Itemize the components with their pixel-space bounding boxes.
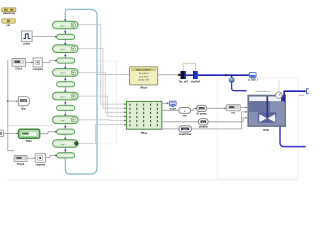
wire: blue vertical line through pipe column bbox=[64, 21, 66, 158]
gauge circle bbox=[276, 92, 282, 98]
cropped block at left edge bbox=[0, 130, 4, 137]
wire: edge block to TSim bbox=[4, 132, 19, 134]
pipe P2 (small) bbox=[57, 34, 75, 39]
svg-text:set: set bbox=[6, 24, 10, 27]
sensor block T2 bbox=[191, 71, 201, 83]
faint area box right section bbox=[217, 78, 298, 179]
wire: compare to pipe P4 bbox=[42, 61, 55, 63]
wire: TBus to desalt flow bbox=[162, 128, 179, 130]
svg-text:Pipe 3: Pipe 3 bbox=[60, 73, 65, 75]
wire: thick blue pipe sensors to condenser icon bbox=[186, 74, 249, 76]
VAust parameter block bbox=[130, 67, 158, 90]
wire: VAust to sensor T1 bbox=[158, 74, 181, 76]
svg-text:pulse: pulse bbox=[24, 43, 31, 46]
faint area box pipe section bbox=[97, 61, 117, 144]
wire: tvz to tank bbox=[240, 107, 247, 109]
desalt flow pill block bbox=[179, 126, 192, 136]
wire: M_pump to tvz bbox=[207, 107, 227, 109]
wire: branch from ball down to tank top port bbox=[232, 82, 246, 90]
wire: tap pipe4 to TBus input4 bbox=[78, 96, 125, 116]
pipe P7 (big) bbox=[53, 92, 78, 100]
svg-text:Clock: Clock bbox=[15, 67, 22, 70]
wire: vhx to M_pump bbox=[191, 109, 197, 111]
M_pump pill block bbox=[197, 105, 207, 115]
pipe P11 (big, dark dot) bbox=[53, 140, 79, 148]
pipe P4 (small) bbox=[57, 58, 75, 63]
setpoint square block bbox=[33, 154, 45, 167]
tank CSTR bbox=[247, 95, 286, 133]
svg-text:u_TBD_i: u_TBD_i bbox=[248, 78, 258, 81]
wire: blue recirculation loop around pipe column bbox=[65, 9, 97, 174]
wire: loop tap to VAust bbox=[97, 74, 130, 76]
wire: sensor bypass loop bbox=[183, 63, 195, 71]
wire: pulse generator to pipe P2 bbox=[32, 36, 55, 38]
wire: aeration to tank bbox=[208, 118, 247, 122]
junction ball icon bbox=[231, 75, 233, 77]
pipe P8 (small) bbox=[57, 105, 75, 110]
time display block 2 bbox=[14, 156, 27, 166]
wire: gauge stem bbox=[278, 80, 280, 92]
wire: mid horizontal line bbox=[8, 125, 52, 127]
svg-text:800 g COD/m³: 800 g COD/m³ bbox=[136, 69, 151, 72]
svg-text:setpoint: setpoint bbox=[35, 163, 45, 166]
faint bottom boundary line bbox=[6, 179, 298, 181]
svg-text:Time2: Time2 bbox=[17, 163, 25, 166]
sensor block T1 bbox=[179, 71, 189, 83]
svg-text:Pipe 2: Pipe 2 bbox=[60, 49, 65, 51]
wire: tap pipe3 to TBus input3 bbox=[78, 72, 125, 112]
svg-text:Umax=5000 m³: Umax=5000 m³ bbox=[255, 90, 270, 93]
wire: setpoint to pipe P12 bbox=[45, 155, 55, 157]
wire: TBus to aeration bbox=[162, 121, 199, 123]
wire: TBus to vhx bbox=[162, 109, 179, 111]
tvz display block bbox=[226, 105, 240, 115]
wire: tank top outlet pipe to right edge bbox=[283, 91, 304, 101]
svg-text:Pipe 6: Pipe 6 bbox=[60, 144, 65, 146]
node: junction dot bbox=[7, 100, 9, 102]
pipe P3 (big) bbox=[53, 45, 78, 53]
TBus input arrowheads bbox=[124, 103, 126, 126]
svg-text:10 g P/m³: 10 g P/m³ bbox=[139, 75, 149, 78]
svg-text:Qsp: Qsp bbox=[21, 107, 26, 110]
pipe P10 (small) bbox=[57, 129, 75, 134]
svg-text:u=5.0: u=5.0 bbox=[299, 95, 305, 97]
wire: tap pipe2 to TBus input2 bbox=[78, 48, 125, 108]
TSim green display block bbox=[19, 129, 40, 143]
svg-text:Pipe 5: Pipe 5 bbox=[60, 120, 65, 122]
svg-text:TSim: TSim bbox=[26, 140, 33, 143]
svg-text:30 g N/m³: 30 g N/m³ bbox=[139, 72, 149, 75]
workspace block set bbox=[2, 19, 15, 27]
svg-text:waterlevel: waterlevel bbox=[3, 12, 15, 15]
svg-text:TBus: TBus bbox=[141, 132, 148, 135]
svg-text:OUR: OUR bbox=[263, 129, 269, 132]
wire: tank bottom outflow bbox=[280, 127, 304, 147]
wire: desalt flow to tank bbox=[191, 112, 246, 129]
wire: clock to compare bbox=[26, 61, 34, 63]
compare block bbox=[33, 58, 44, 71]
svg-text:desalt flow: desalt flow bbox=[179, 133, 191, 136]
pipe P9 (big) bbox=[53, 116, 78, 124]
svg-text:compare: compare bbox=[33, 68, 44, 71]
svg-text:Tes_okT: Tes_okT bbox=[179, 80, 189, 83]
condenser / computer icon U1 bbox=[248, 73, 258, 82]
scope icon bbox=[169, 101, 177, 110]
wire: tap pipe6 to TBus input6 bbox=[78, 125, 124, 144]
TBus matrix block bbox=[126, 101, 161, 135]
pipe P12 (small) bbox=[57, 153, 75, 158]
pipe P1 (big) bbox=[53, 21, 78, 29]
svg-text:vhx: vhx bbox=[183, 115, 188, 118]
wire: tap pipe1 to TBus input1 bbox=[78, 25, 125, 104]
wire: left distribution vertical bbox=[8, 60, 14, 151]
goto tag 0.008 bbox=[19, 97, 30, 111]
svg-text:VAust: VAust bbox=[140, 87, 147, 90]
svg-text:M_pump: M_pump bbox=[197, 112, 207, 115]
flow arrows between pipes bbox=[64, 19, 66, 151]
svg-text:0.008: 0.008 bbox=[21, 101, 27, 103]
cropped block right edge top bbox=[307, 89, 311, 94]
wire: TSim to pipe P10 bbox=[40, 132, 56, 134]
pipe P6 (small) bbox=[57, 82, 75, 87]
svg-text:aeration: aeration bbox=[199, 126, 209, 129]
connector nub at sensor T1 bbox=[178, 74, 180, 76]
svg-text:10000 m³/d: 10000 m³/d bbox=[138, 79, 150, 82]
wire: TBus to scope icon bbox=[162, 102, 169, 104]
wire: time display to setpoint bbox=[27, 157, 35, 159]
pulse generator bbox=[21, 31, 32, 46]
workspace block waterlevel bbox=[2, 8, 16, 15]
aeration pill block bbox=[199, 119, 209, 129]
wire: junction to goto tag bbox=[8, 100, 18, 102]
svg-text:Pipe 1: Pipe 1 bbox=[60, 25, 65, 27]
pipe P5 (big) bbox=[53, 69, 78, 77]
vhx pill block bbox=[179, 108, 191, 118]
clock display block bbox=[12, 59, 26, 71]
wire: tap pipe5 to TBus input5 bbox=[78, 119, 125, 122]
svg-text:Pipe 4: Pipe 4 bbox=[60, 96, 65, 98]
svg-text:seisPwT: seisPwT bbox=[191, 80, 201, 83]
